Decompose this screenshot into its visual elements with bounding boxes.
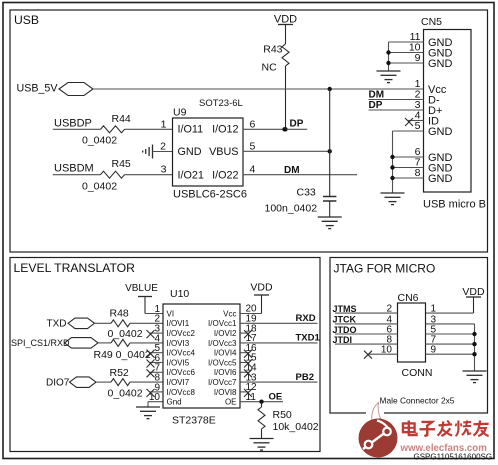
- svg-text:I/OVI1: I/OVI1: [167, 319, 190, 328]
- svg-text:I/O22: I/O22: [212, 169, 238, 181]
- svg-text:I/OVcc1: I/OVcc1: [208, 319, 237, 328]
- wire R45 to U9 pin3: [125, 174, 173, 176]
- no-connect X marks U10 right pins: [240, 330, 252, 397]
- wire CN6 pin3: [426, 323, 475, 325]
- port TXD: [47, 318, 95, 329]
- svg-text:USB_5V: USB_5V: [17, 83, 59, 95]
- svg-text:R48: R48: [110, 307, 129, 319]
- svg-text:5: 5: [250, 141, 256, 153]
- svg-text:VBLUE: VBLUE: [125, 283, 158, 294]
- net label RXD: [296, 313, 316, 324]
- svg-text:JTDI: JTDI: [333, 335, 353, 345]
- junction OE/R50: [259, 400, 263, 404]
- svg-text:ST2378E: ST2378E: [172, 414, 216, 426]
- svg-text:U9: U9: [173, 106, 187, 118]
- net label USBDP: [54, 118, 92, 130]
- wire CN5 pin8: [393, 177, 424, 179]
- svg-text:I/OVI4: I/OVI4: [214, 349, 237, 358]
- junction CN5 pin7: [390, 165, 394, 169]
- JTAG section box: [330, 258, 488, 414]
- svg-text:0_0402: 0_0402: [82, 181, 117, 193]
- op-amp U9 outline: [173, 118, 244, 186]
- wire USBDM: [53, 174, 101, 176]
- junction R43/DP: [283, 127, 287, 131]
- resistor R50: [258, 407, 265, 429]
- svg-text:DM: DM: [369, 89, 385, 100]
- wire VDD to U10 pin20: [240, 295, 262, 314]
- power VDD at U10: [250, 282, 273, 296]
- svg-text:I/O21: I/O21: [178, 169, 204, 181]
- IC U10 outline: [163, 304, 240, 408]
- resistor R49: [111, 339, 130, 346]
- ground below R50: [250, 439, 274, 451]
- wire R44 to U9 pin1: [125, 128, 173, 130]
- svg-text:OE: OE: [269, 392, 283, 403]
- svg-text:USB: USB: [14, 13, 39, 27]
- wire CN5 gnd group bottom: [392, 131, 394, 193]
- svg-text:JTCK: JTCK: [333, 315, 357, 325]
- net label OE: [269, 392, 283, 403]
- svg-text:LEVEL TRANSLATOR: LEVEL TRANSLATOR: [14, 261, 136, 275]
- U10 left pin names: [167, 309, 196, 406]
- wire CN6 pin10 stub: [369, 353, 398, 355]
- svg-text:R44: R44: [112, 113, 131, 125]
- junction DP: [282, 127, 286, 131]
- ground at U10 pin10: [136, 407, 160, 419]
- ground below C33: [318, 217, 342, 229]
- svg-text:I/O11: I/O11: [178, 123, 204, 135]
- R50 value: [273, 421, 319, 433]
- svg-text:Gnd: Gnd: [167, 398, 182, 407]
- svg-text:TXD1: TXD1: [296, 333, 321, 344]
- power VDD at CN6: [462, 286, 485, 298]
- wire U9 pin4 DM: [243, 174, 357, 176]
- net labels JTMS JTCK JTDO JTDI: [333, 304, 357, 345]
- svg-text:6: 6: [250, 118, 256, 130]
- svg-text:DP: DP: [369, 100, 383, 111]
- wire R52 to U10 pin8: [130, 381, 163, 383]
- R45 label: [112, 158, 131, 170]
- svg-text:TXD: TXD: [47, 319, 67, 330]
- svg-text:VDD: VDD: [462, 286, 485, 298]
- net label TXD1: [296, 333, 321, 344]
- wire USB_5V to CN5 Vcc: [93, 88, 424, 90]
- port USB_5V: [59, 83, 93, 96]
- junction CN6 pin9: [472, 352, 476, 356]
- svg-text:USB micro B: USB micro B: [423, 199, 486, 211]
- U9 refdes: [173, 106, 187, 118]
- U10 refdes: [170, 288, 189, 300]
- svg-text:Vcc: Vcc: [223, 309, 236, 318]
- connector CN5 outline: [424, 30, 472, 193]
- U10 part number ST2378E: [172, 414, 216, 426]
- wire CN6 pin5: [426, 333, 475, 335]
- svg-text:I/OVcc7: I/OVcc7: [208, 378, 237, 387]
- CN5 refdes: [421, 16, 442, 28]
- svg-text:JTMS: JTMS: [333, 304, 357, 314]
- wire R48 to U10 pin2: [130, 322, 163, 324]
- U9 pin name GND: [178, 146, 202, 158]
- svg-text:USBDM: USBDM: [54, 163, 94, 175]
- connector CN6 outline: [398, 303, 426, 362]
- svg-text:GND: GND: [428, 126, 453, 138]
- svg-text:4: 4: [250, 164, 256, 176]
- svg-text:I/OVI6: I/OVI6: [214, 368, 237, 377]
- drawing number GSPG1105161600SG: [414, 453, 493, 462]
- svg-text:10k_0402: 10k_0402: [273, 421, 319, 433]
- wire U10 pin10 to ground: [148, 402, 163, 407]
- ground below CN6: [463, 371, 487, 383]
- junction CN5 pin10: [386, 50, 390, 54]
- wire RXD port to R49: [98, 342, 111, 344]
- svg-text:GND: GND: [178, 146, 202, 158]
- U9 pin name I/O22: [212, 169, 238, 181]
- net label USB_5V: [17, 83, 59, 95]
- svg-text:2: 2: [386, 304, 392, 315]
- svg-text:I/OVcc6: I/OVcc6: [167, 368, 196, 377]
- svg-text:I/OVI5: I/OVI5: [167, 358, 190, 367]
- wire CN5 pin11: [389, 41, 424, 43]
- resistor R44: [101, 126, 125, 133]
- ground CN5 bottom group: [381, 193, 405, 205]
- svg-text:RXD: RXD: [296, 313, 316, 324]
- no-connect X CN6 pin10: [364, 351, 372, 359]
- wire U9 pin2 to ground: [153, 151, 173, 153]
- R43 value NC: [262, 62, 278, 74]
- U9 pin number 5: [250, 141, 256, 153]
- svg-text:CN6: CN6: [398, 292, 419, 304]
- R44 value: [82, 135, 117, 147]
- CN5 description USB micro B: [423, 199, 486, 211]
- svg-text:I/OVcc8: I/OVcc8: [167, 388, 196, 397]
- svg-text:CONN: CONN: [402, 367, 433, 379]
- junction CN5 pin6: [390, 155, 394, 159]
- power VBLUE: [125, 283, 158, 297]
- svg-text:SPI_CS1/RXD: SPI_CS1/RXD: [11, 338, 70, 348]
- JTAG section title: [334, 262, 436, 276]
- U9 pin number 1: [161, 118, 167, 130]
- U9 pin name VBUS: [209, 146, 238, 158]
- svg-text:I/OVcc3: I/OVcc3: [208, 339, 237, 348]
- svg-text:9: 9: [415, 52, 421, 64]
- power VDD (top): [274, 13, 297, 44]
- LEVEL TRANSLATOR section box: [10, 258, 320, 452]
- CN6 refdes: [398, 292, 419, 304]
- wire CN6 gnd vertical: [474, 324, 476, 371]
- ground CN5 top group: [377, 71, 401, 83]
- junction CN6 pin7: [472, 342, 476, 346]
- R44 label: [112, 113, 131, 125]
- junction VBUS/C33: [328, 149, 332, 153]
- resistor R52: [111, 379, 130, 386]
- wire CN5 pin9: [389, 62, 424, 64]
- watermark text dianzifashaoyou: [403, 421, 489, 437]
- R50 label: [273, 409, 292, 421]
- junction USB_5V/VBUS: [328, 87, 332, 91]
- svg-text:5: 5: [415, 120, 421, 132]
- U9 pin name I/O12: [212, 123, 238, 135]
- svg-text:I/OVI8: I/OVI8: [214, 388, 237, 397]
- net label DM: [284, 165, 300, 176]
- wires JTMS JTCK JTDO JTDI to CN6: [335, 313, 398, 344]
- svg-text:R49 0_0402: R49 0_0402: [94, 349, 151, 361]
- wire R50 to ground: [261, 429, 263, 439]
- svg-text:I/OVcc2: I/OVcc2: [167, 329, 196, 338]
- svg-text:3: 3: [161, 164, 167, 176]
- wire R49 to U10 pin4: [130, 342, 163, 344]
- U10 right pin names: [208, 309, 237, 406]
- svg-text:0_0402: 0_0402: [108, 328, 143, 340]
- resistor R45: [101, 171, 125, 178]
- R52 label: [110, 367, 129, 379]
- svg-text:R43: R43: [263, 43, 282, 55]
- capacitor C33: [323, 197, 336, 202]
- R49 label and value: [94, 349, 151, 361]
- U9 pin number 2: [160, 141, 166, 153]
- net label DM at CN5: [369, 89, 385, 100]
- svg-text:NC: NC: [262, 62, 278, 74]
- svg-text:VBUS: VBUS: [209, 146, 238, 158]
- CN6 description CONN: [402, 367, 433, 379]
- resistor R43: [282, 44, 289, 66]
- CN6 left pin numbers: [381, 304, 393, 356]
- U9 pin number 4: [250, 164, 256, 176]
- junction CN5 pin9: [386, 61, 390, 65]
- svg-text:0_0402: 0_0402: [82, 135, 117, 147]
- watermark url www.elecfans.com: [400, 443, 488, 454]
- wire USBDP: [53, 128, 101, 130]
- wire VBUS down to C33: [329, 89, 331, 197]
- svg-text:DIO7: DIO7: [46, 378, 70, 389]
- svg-text:VDD: VDD: [274, 13, 297, 25]
- net label DP: [290, 119, 304, 130]
- svg-text:R52: R52: [110, 367, 129, 379]
- USB section box: [10, 10, 488, 252]
- wire CN5 pin5: [393, 130, 424, 132]
- svg-text:USBLC6-2SC6: USBLC6-2SC6: [173, 189, 247, 201]
- wire CN5 pin10: [389, 52, 424, 54]
- R48 label: [110, 307, 129, 319]
- wire TXD to R48: [95, 322, 112, 324]
- LEVEL TRANSLATOR section title: [14, 261, 136, 275]
- U10 right pin numbers: [246, 304, 258, 403]
- wire U10 pin11 OE: [240, 401, 283, 403]
- wire VBLUE to U10 pin1: [145, 297, 163, 314]
- svg-text:R50: R50: [273, 409, 292, 421]
- svg-text:2: 2: [160, 141, 166, 153]
- svg-text:GND: GND: [428, 173, 453, 185]
- junction CN5 pin8: [390, 176, 394, 180]
- wire CN5 pin4 stub: [408, 120, 424, 122]
- svg-text:USBDP: USBDP: [54, 118, 92, 130]
- junction CN6 pin5: [472, 332, 476, 336]
- svg-text:U10: U10: [170, 288, 189, 300]
- svg-text:JTAG FOR MICRO: JTAG FOR MICRO: [334, 262, 436, 276]
- U9 pin name I/O11: [178, 123, 204, 135]
- U10 left pin numbers: [149, 304, 161, 403]
- U9 package label SOT23-6L: [199, 98, 243, 109]
- wire CN6 pin9: [426, 353, 475, 355]
- wire CN5 gnd group top: [388, 42, 390, 71]
- no-connect X marks U10 left pins: [147, 330, 164, 397]
- svg-text:I/OVcc5: I/OVcc5: [208, 358, 237, 367]
- USB section title: [14, 13, 39, 27]
- ground at U9 pin2: [143, 145, 153, 159]
- svg-text:1: 1: [161, 118, 167, 130]
- wire U9 pin6 DP: [243, 128, 307, 130]
- wire OE to R50: [261, 402, 263, 407]
- wire VDD to CN6 pin1: [426, 297, 474, 313]
- wire C33 to ground: [329, 201, 331, 217]
- U9 pin number 3: [161, 164, 167, 176]
- svg-text:DP: DP: [290, 119, 304, 130]
- svg-text:I/OVI7: I/OVI7: [167, 378, 190, 387]
- wire CN5 pin7: [393, 167, 424, 169]
- CN5 pin names: [428, 37, 453, 185]
- net label PB2: [296, 372, 314, 383]
- svg-text:JTDO: JTDO: [333, 325, 357, 335]
- net label USBDM: [54, 163, 94, 175]
- R48 value: [108, 328, 143, 340]
- port DIO7: [46, 377, 96, 389]
- CN6 note Male Connector 2x5: [380, 396, 455, 406]
- svg-text:I/OVI2: I/OVI2: [214, 329, 237, 338]
- wire CN5 pin6: [393, 156, 424, 158]
- resistor R48: [111, 320, 130, 327]
- wire R43 to DP net: [285, 66, 287, 129]
- U9 pin name I/O21: [178, 169, 204, 181]
- svg-text:1: 1: [431, 304, 437, 315]
- port SPI_CS1/RXD: [11, 338, 98, 349]
- R45 value: [82, 181, 117, 193]
- CN6 right pin numbers: [431, 304, 437, 356]
- svg-text:OE: OE: [225, 398, 237, 407]
- svg-text:8: 8: [415, 167, 421, 179]
- wire CN6 pin7: [426, 343, 475, 345]
- svg-text:I/OVI3: I/OVI3: [167, 339, 190, 348]
- svg-text:I/O12: I/O12: [212, 123, 238, 135]
- wire U10 pin19 RXD: [240, 322, 318, 324]
- CN5 pin numbers: [409, 31, 421, 179]
- wire U10 pin13 PB2: [240, 381, 318, 383]
- watermark logo circle: [359, 403, 398, 458]
- svg-text:GND: GND: [428, 58, 453, 70]
- svg-text:DM: DM: [284, 165, 300, 176]
- wire U10 pin17 TXD1: [240, 342, 318, 344]
- wire DIO7 to R52: [96, 381, 111, 383]
- svg-text:VI: VI: [167, 309, 175, 318]
- C33 value: [265, 203, 318, 215]
- svg-text:Male Connector 2x5: Male Connector 2x5: [380, 396, 455, 406]
- svg-text:C33: C33: [297, 186, 316, 198]
- svg-text:PB2: PB2: [296, 372, 314, 383]
- svg-text:VDD: VDD: [250, 282, 273, 294]
- svg-text:CN5: CN5: [421, 16, 442, 28]
- net label DP at CN5: [369, 100, 383, 111]
- svg-text:R45: R45: [112, 158, 131, 170]
- svg-text:0_0402: 0_0402: [108, 388, 143, 400]
- no-connect X CN5 pin4: [405, 118, 413, 126]
- wire U9 pin5 VBUS: [243, 150, 330, 152]
- svg-text:100n_0402: 100n_0402: [265, 203, 318, 215]
- wire CN5 pin3 DP: [369, 109, 424, 111]
- svg-text:I/OVcc4: I/OVcc4: [167, 349, 196, 358]
- svg-text:GSPG1105161600SG: GSPG1105161600SG: [414, 453, 493, 462]
- wire CN5 pin2 DM: [369, 99, 424, 101]
- C33 label: [297, 186, 316, 198]
- R52 value: [108, 388, 143, 400]
- U9 pin number 6: [250, 118, 256, 130]
- U9 part number USBLC6-2SC6: [173, 189, 247, 201]
- R43 label: [263, 43, 282, 55]
- svg-text:SOT23-6L: SOT23-6L: [199, 98, 243, 109]
